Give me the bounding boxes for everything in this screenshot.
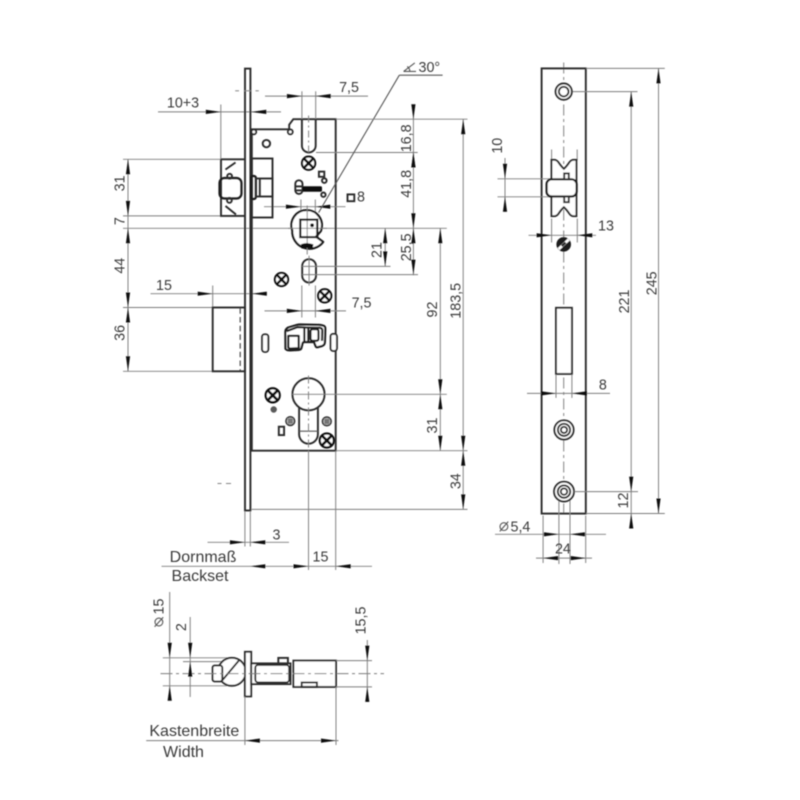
- svg-text:44: 44: [113, 258, 129, 274]
- hook cam lip line: [287, 327, 323, 341]
- svg-text:36: 36: [113, 325, 129, 341]
- svg-text:3: 3: [273, 528, 281, 544]
- arrow 7,5 lower right: [315, 309, 330, 313]
- extension plate edges down: [542, 516, 544, 564]
- svg-text:12: 12: [616, 493, 632, 509]
- deadbolt: [213, 308, 245, 372]
- svg-text:34: 34: [449, 473, 465, 489]
- bottom view centerline: [161, 673, 385, 675]
- extension top hole right: [572, 91, 638, 93]
- arrow 41,8 bottom: [411, 213, 415, 228]
- dimension 245 vertical line: [658, 68, 660, 513]
- case top tangent line: [183, 661, 225, 663]
- svg-text:92: 92: [425, 302, 441, 318]
- extension plate top right: [586, 67, 665, 69]
- arrow 31r top: [438, 394, 442, 409]
- latch body shaft: [256, 179, 273, 197]
- arrow sq8 right: [315, 205, 330, 209]
- arrow 7 bottom outside: [126, 228, 130, 243]
- dia symbol: [500, 523, 508, 531]
- leader 30deg: [319, 75, 400, 212]
- svg-text:8: 8: [599, 378, 607, 394]
- svg-text:5,4: 5,4: [511, 520, 531, 536]
- latch chamfer bottom: [226, 206, 237, 215]
- faceplate strip: [245, 69, 250, 511]
- case top notch circle right: [288, 130, 293, 135]
- slab top bump: [278, 658, 288, 664]
- arrow 21 top: [383, 228, 387, 243]
- svg-text:25,5: 25,5: [399, 233, 415, 261]
- follower dot: [310, 223, 314, 227]
- extension kastenbreite left: [244, 697, 246, 746]
- side slot right: [331, 334, 337, 351]
- centerline tick lower: [218, 483, 232, 485]
- latch head front: [547, 179, 577, 196]
- dia15 dimension line: [169, 592, 171, 700]
- arrow 25,5 bottom: [411, 260, 415, 275]
- roller circle: [218, 658, 246, 686]
- arrow 3 left: [230, 540, 245, 544]
- small circle part: [322, 178, 327, 183]
- capsule line 25,5: [302, 274, 418, 276]
- arrow dia15 bottom: [168, 686, 172, 701]
- arrow 34 bottom: [461, 494, 465, 509]
- arrow 7,5 top left: [287, 94, 302, 98]
- capsule extension lines down: [301, 286, 303, 318]
- slab bottom notch: [302, 683, 317, 687]
- capsule hole: [302, 259, 316, 282]
- hook cam outer: [285, 325, 325, 351]
- svg-text:15: 15: [313, 550, 329, 566]
- svg-text:7: 7: [113, 217, 129, 225]
- svg-text:7,5: 7,5: [352, 296, 372, 312]
- arrow 245 top: [656, 68, 660, 83]
- dornmass dimension line: [162, 565, 373, 567]
- dimension 92 31 vertical line: [439, 228, 441, 450]
- svg-text:31: 31: [425, 418, 441, 434]
- cylinder keyway: [299, 407, 318, 443]
- latch chamfer top: [226, 163, 236, 170]
- latch body tab: [251, 176, 256, 199]
- arrow dia15 top: [168, 643, 172, 658]
- dia 5,4 dimension line: [495, 533, 606, 535]
- extension 8 lines: [555, 375, 557, 398]
- top slot: [302, 119, 316, 152]
- arrow 221 top: [629, 92, 633, 107]
- dimension line 31/7/44/36: [127, 159, 129, 371]
- middle screw hole: [554, 420, 573, 439]
- arrow 44 bottom: [126, 293, 130, 308]
- extension axis down: [308, 451, 310, 570]
- hatched circle left: [286, 417, 295, 426]
- extension 15,5 lines: [336, 660, 372, 662]
- extension line deadbolt bottom: [123, 370, 213, 372]
- arrow 31 top: [126, 159, 130, 174]
- arrow 36 top: [126, 308, 130, 323]
- arrow 92 top: [438, 228, 442, 243]
- dimension 183,5 34 vertical line: [462, 119, 464, 509]
- svg-text:30°: 30°: [419, 60, 441, 76]
- arrow 7,5 lower left: [287, 309, 302, 313]
- arrow kastenbreite right: [321, 739, 336, 743]
- svg-text:31: 31: [113, 175, 129, 191]
- label square8 symbol: [348, 194, 355, 201]
- dimension 10 vertical line: [504, 158, 506, 212]
- arrow kastenbreite left: [245, 739, 260, 743]
- case top notch circle left: [251, 130, 256, 135]
- latch cutout: [552, 160, 577, 216]
- svg-text:Backset: Backset: [172, 568, 229, 585]
- svg-text:10+3: 10+3: [167, 96, 199, 112]
- lock case outline: [252, 119, 336, 451]
- arrow 15b right: [336, 564, 351, 568]
- dia15 symbol: [155, 618, 163, 626]
- arrow 10 top outside: [503, 164, 507, 179]
- arrow 183,5 top: [461, 119, 465, 134]
- dimension line 10+3: [158, 111, 281, 113]
- arrow 221 bottom: [629, 477, 633, 492]
- arrow 245 bottom: [656, 499, 660, 514]
- screw cyl-left: [266, 388, 280, 402]
- latch pin bottom front: [564, 197, 569, 203]
- svg-text:15: 15: [152, 599, 168, 615]
- extension slot bottom right: [316, 152, 418, 154]
- svg-text:15: 15: [156, 278, 172, 294]
- deadbolt slot: [556, 308, 572, 374]
- hook foot box: [288, 336, 298, 349]
- small square part: [319, 172, 324, 177]
- small ring part: [263, 140, 270, 147]
- svg-text:Dornmaß: Dornmaß: [170, 549, 237, 566]
- latch body box: [252, 159, 273, 218]
- roller slash: [221, 661, 239, 682]
- svg-text:15,5: 15,5: [354, 607, 370, 635]
- BOTTOM VIEW: [146, 592, 384, 761]
- svg-text:221: 221: [617, 290, 633, 314]
- plate outline: [542, 68, 586, 513]
- arrow dornmass right: [294, 564, 309, 568]
- screw mid-left: [275, 273, 288, 286]
- arrow 10+3 left: [206, 110, 221, 114]
- dimension 21 vertical line: [384, 228, 386, 266]
- arrow 10+3 right: [251, 110, 266, 114]
- cylinder circle: [292, 378, 324, 410]
- capsule line 21: [302, 265, 390, 267]
- extension kastenbreite right: [335, 687, 337, 745]
- arrow 36 bottom: [126, 356, 130, 371]
- hook inner slot lines: [304, 328, 308, 342]
- screw mid-right: [318, 289, 331, 302]
- hook inner window: [311, 329, 319, 341]
- extension case back down: [335, 451, 337, 570]
- arrow 41,8 top: [411, 153, 415, 168]
- dimension line 7,5 lower: [265, 310, 347, 312]
- follower black tab: [301, 243, 314, 249]
- arrow 15 left: [198, 292, 213, 296]
- plate centerline: [563, 63, 565, 514]
- arrow 34 top: [461, 451, 465, 466]
- roller tangent top line: [163, 657, 228, 659]
- dim 2 vertical line: [189, 617, 191, 697]
- arrow dornmass left: [250, 564, 265, 568]
- cover screw: [557, 238, 571, 252]
- angle symbol: [404, 63, 416, 72]
- latch body inner line: [259, 179, 261, 197]
- extension line latch front: [220, 105, 222, 160]
- guide housing: [251, 663, 290, 684]
- latch pin bottom: [227, 198, 232, 203]
- dimension line 7,5 top: [265, 95, 368, 97]
- arrow 24 right: [571, 556, 586, 560]
- arrow 3 right: [250, 540, 265, 544]
- extension case top right: [336, 118, 468, 120]
- extension line deadbolt top: [123, 307, 213, 309]
- arrow 15,5 top outside: [365, 646, 369, 661]
- top slot extension lines: [301, 91, 303, 119]
- side slot left: [262, 334, 268, 352]
- top slot centerline: [308, 116, 310, 157]
- arrow dia left: [544, 532, 559, 536]
- follower crosshair vertical: [306, 206, 308, 255]
- svg-text:24: 24: [555, 542, 571, 558]
- square hole extension ticks: [300, 200, 302, 213]
- svg-text:21: 21: [370, 242, 386, 258]
- spring bolt head: [295, 180, 302, 194]
- arrow 15,5 bottom outside: [365, 687, 369, 702]
- arrow 31 bottom: [126, 201, 130, 216]
- arrow 12 bottom outside: [629, 514, 633, 529]
- spring bolt end dot: [321, 193, 325, 197]
- roller tangent bottom line: [163, 685, 227, 687]
- svg-text:41,8: 41,8: [399, 170, 415, 198]
- faceplate bar bottom view: [245, 652, 251, 697]
- follower body: [291, 210, 323, 249]
- svg-text:183,5: 183,5: [449, 283, 465, 319]
- centerline tick top: [235, 90, 259, 92]
- arrow 13 right: [577, 233, 592, 237]
- arrow 8 right: [572, 391, 587, 395]
- gray dot: [271, 406, 277, 412]
- dimension line 3: [208, 541, 290, 543]
- capsule centerline: [308, 256, 310, 286]
- dim 15,5 vertical line: [366, 640, 368, 702]
- cylinder chord line: [299, 430, 318, 432]
- arrow 2 bottom outside: [188, 662, 192, 677]
- bottom screw hole: [554, 482, 574, 502]
- arrow 13 left: [537, 233, 552, 237]
- arrow 10 bottom outside: [503, 197, 507, 212]
- deadbolt hidden line: [239, 308, 241, 370]
- dimension 16,8 41,8 25,5 vertical line: [412, 108, 414, 275]
- dimension line 13: [529, 234, 597, 236]
- arrow 16,8 bottom outside: [411, 153, 415, 168]
- extension line latch bottom: [123, 215, 221, 217]
- extension case bottom right: [336, 450, 468, 452]
- centerline follower axis: [123, 227, 447, 229]
- hatched circle right: [322, 417, 331, 426]
- top screw hole: [556, 84, 572, 100]
- follower square hole: [300, 220, 317, 238]
- spring bolt shaft: [303, 186, 323, 192]
- arrow 31r bottom: [438, 436, 442, 451]
- extension faceplate bottom right: [251, 508, 468, 510]
- svg-text:2: 2: [174, 623, 190, 631]
- small rect part: [279, 427, 284, 435]
- dimension line 24: [536, 557, 592, 559]
- dimension line 15 deadbolt: [151, 293, 268, 295]
- extension latch head lines left: [498, 178, 553, 180]
- arrow 24 left: [543, 556, 558, 560]
- cylinder axis horizontal: [292, 393, 447, 395]
- arrow 16,8 top outside: [411, 104, 415, 119]
- dimension 221 12 vertical line: [630, 92, 632, 529]
- arrow 15 right: [252, 292, 267, 296]
- arrow dia right: [570, 532, 585, 536]
- arrow 25,5 top: [411, 228, 415, 243]
- arrow 183,5 bottom: [461, 436, 465, 451]
- arrow 92 bottom: [438, 379, 442, 394]
- screw cyl-right: [320, 434, 334, 448]
- svg-text:13: 13: [598, 219, 614, 235]
- svg-text:16,8: 16,8: [399, 124, 415, 152]
- extension deadbolt front up: [212, 286, 214, 308]
- latch pin top front: [564, 173, 569, 179]
- extension 13 lines: [551, 219, 553, 243]
- latch tip rect: [213, 666, 223, 682]
- extension line latch top: [123, 158, 221, 160]
- dimension line square 8: [264, 206, 346, 208]
- screw top: [302, 157, 315, 170]
- latch knob: [220, 178, 242, 199]
- cylinder centerline vertical: [308, 376, 310, 451]
- extension faceplate edges down: [244, 511, 246, 547]
- latch pin top: [227, 174, 232, 179]
- latch head box: [221, 159, 245, 216]
- svg-text:245: 245: [645, 271, 661, 295]
- extension bottom hole dia lines: [558, 497, 560, 564]
- dimension line 8: [527, 392, 610, 394]
- svg-text:Kastenbreite: Kastenbreite: [149, 723, 239, 740]
- arrow 8 left: [541, 391, 556, 395]
- svg-text:10: 10: [490, 138, 506, 154]
- arrow 7,5 top right: [316, 94, 331, 98]
- extension plate bottom right: [586, 513, 665, 515]
- RIGHT VIEW: [490, 63, 665, 565]
- arrow sq8 left: [286, 205, 301, 209]
- kastenbreite dimension line: [146, 740, 338, 742]
- latch cutout extension stubs: [551, 150, 553, 161]
- extension bottom hole right: [574, 491, 638, 493]
- MAIN VIEW: [113, 60, 468, 585]
- svg-text:8: 8: [357, 190, 365, 206]
- follower crosshair horizontal: [288, 227, 327, 229]
- arrow 21 bottom: [383, 251, 387, 266]
- svg-text:7,5: 7,5: [339, 80, 359, 96]
- svg-text:Width: Width: [163, 744, 204, 761]
- main slab: [293, 661, 336, 687]
- arrow 2 top outside: [188, 643, 192, 658]
- guide inner rounded rect: [255, 665, 289, 683]
